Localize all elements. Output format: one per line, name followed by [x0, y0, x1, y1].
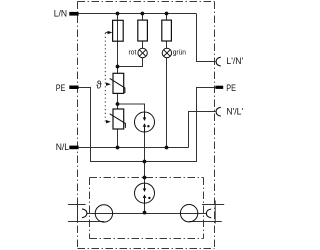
svg-text:rot: rot [129, 49, 137, 56]
svg-text:N'/L': N'/L' [226, 106, 243, 116]
svg-text:PE: PE [56, 82, 66, 93]
svg-text:L'/N': L'/N' [226, 56, 243, 66]
svg-text:grün: grün [173, 49, 186, 56]
svg-text:L/N: L/N [54, 8, 67, 18]
svg-text:ϑ: ϑ [96, 80, 102, 92]
svg-text:PE: PE [226, 82, 236, 93]
svg-text:N/L: N/L [56, 142, 69, 152]
